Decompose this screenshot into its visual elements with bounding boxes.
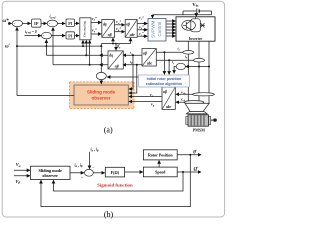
block F omega bbox=[105, 167, 124, 177]
inner feedback bbox=[54, 172, 184, 191]
summing junction theta circle bbox=[96, 72, 106, 79]
svg-text:αβ: αβ bbox=[115, 65, 119, 69]
junction (38.8,35.6) bbox=[38, 35, 40, 37]
motor funnel bbox=[185, 103, 209, 111]
junction (164.4,52.3) bbox=[163, 51, 165, 53]
omega feedback horizontal from smo bbox=[17, 95, 74, 97]
wires svpwm to inverter 6 bbox=[166, 20, 175, 22]
L1 line bbox=[17, 45, 101, 47]
svg-text:(b): (b) bbox=[104, 210, 114, 219]
junction (144.2,36.2) bbox=[143, 35, 145, 37]
wire ic from phase bbox=[186, 66, 209, 68]
junction (144.2,29.8) bbox=[143, 29, 145, 31]
wire Vbeta in bbox=[14, 175, 30, 177]
block IP bbox=[32, 19, 42, 27]
arrowheads on L2 L3 bbox=[100, 54, 102, 56]
L3 id line bbox=[53, 64, 108, 66]
wire Vcb sensor to T4 bbox=[176, 101, 185, 103]
wire vdc to svpwm bbox=[152, 15, 154, 18]
wire T2 to svpwm 1 bbox=[137, 23, 147, 25]
svg-text:observer: observer bbox=[91, 95, 110, 100]
wire ia to abc block bbox=[156, 51, 183, 53]
phase line a bbox=[187, 41, 189, 104]
svg-text:(a): (a) bbox=[104, 126, 113, 135]
theta vertical from circle bbox=[100, 44, 102, 73]
summing junction S2 bbox=[47, 20, 57, 27]
drop ia to init box bbox=[163, 52, 165, 74]
svg-text:αβ: αβ bbox=[108, 33, 112, 37]
junction (116,43.6) bbox=[115, 43, 117, 45]
summing circle b bbox=[85, 169, 94, 176]
svg-text:observer: observer bbox=[42, 173, 58, 178]
junction (17,46.1) bbox=[16, 45, 18, 47]
wire Valpha in bbox=[14, 169, 30, 171]
wire Vab sensor to T4 bbox=[176, 93, 193, 95]
phase line c bbox=[208, 41, 210, 104]
wire init box to sum circle bbox=[107, 76, 138, 78]
svg-text:Vα: Vα bbox=[16, 162, 21, 168]
junction (101.3,46.1) bbox=[100, 45, 102, 47]
svg-text:PI: PI bbox=[68, 33, 72, 38]
svg-text:+: + bbox=[43, 34, 45, 38]
wire Vd* decoupling to dq-ab bbox=[91, 22, 101, 24]
svg-text:+: + bbox=[49, 22, 51, 26]
svg-text:αβ: αβ bbox=[143, 52, 147, 56]
svg-text:ω*: ω* bbox=[3, 19, 10, 24]
block smo-b bbox=[31, 166, 71, 179]
svg-text:estimation algorithm: estimation algorithm bbox=[146, 82, 183, 86]
svg-text:αβ: αβ bbox=[126, 22, 130, 26]
junction (144.2,23.5) bbox=[143, 23, 145, 25]
junction (77,23.4) bbox=[76, 23, 78, 25]
wire circle to F bbox=[93, 172, 104, 174]
block T5 abc-ab currents bbox=[142, 49, 156, 67]
svg-text:Rotor Position: Rotor Position bbox=[148, 153, 173, 158]
ibeta drop to smo bbox=[129, 65, 137, 93]
wire ib to abc block bbox=[156, 59, 193, 61]
junction (209,66.5) bbox=[208, 66, 210, 68]
svg-text:Vβ: Vβ bbox=[15, 179, 20, 185]
block decoupling bbox=[80, 18, 91, 40]
wire omega* input bbox=[8, 22, 12, 24]
svg-text:PMSM: PMSM bbox=[193, 127, 205, 132]
phase line b bbox=[198, 41, 200, 111]
theta stub to T2 bbox=[130, 38, 132, 44]
svg-text:Inverter: Inverter bbox=[189, 37, 203, 41]
svg-text:Sliding mode: Sliding mode bbox=[87, 90, 116, 95]
wire S3 to PI d bbox=[51, 35, 65, 37]
svg-text:F(Ω): F(Ω) bbox=[111, 170, 120, 175]
outer feedback bbox=[41, 155, 190, 207]
svg-text:+: + bbox=[14, 22, 16, 26]
block PI q bbox=[66, 19, 75, 27]
theta stub to T3 bbox=[115, 44, 117, 51]
Valpha wire T4 to smo bbox=[129, 96, 162, 98]
block T1 dq-ab bbox=[102, 20, 115, 38]
block speed bbox=[143, 167, 177, 177]
block PI d bbox=[66, 32, 75, 39]
svg-text:abc: abc bbox=[166, 105, 172, 109]
wire speed to rotor position bbox=[158, 161, 160, 168]
wire smo-b to circle bbox=[70, 172, 84, 174]
drop ic to init box bbox=[174, 67, 176, 74]
junction (46.4,46.1) bbox=[45, 45, 47, 47]
svg-text:Speed: Speed bbox=[155, 170, 166, 175]
block T3 ab-dq currents bbox=[108, 51, 123, 69]
svg-text:Initial rotor position: Initial rotor position bbox=[147, 77, 182, 81]
drop ib to init box bbox=[168, 60, 170, 74]
wire speed out bbox=[177, 171, 201, 173]
initial rotor position estimation box bbox=[139, 75, 190, 87]
dc rail upper with battery gap bbox=[183, 10, 196, 12]
ibeta line T3 right bbox=[123, 64, 142, 66]
motor body bbox=[186, 117, 188, 125]
junction (169.1,60.2) bbox=[168, 59, 170, 61]
theta stub to T1 bbox=[112, 38, 114, 44]
current sensor ia bbox=[183, 51, 194, 55]
Vbeta wire T4 to smo bbox=[129, 101, 162, 103]
junction (113,43.6) bbox=[112, 43, 114, 45]
igbt symbol bbox=[182, 17, 205, 32]
wire rotor position out bbox=[177, 154, 201, 156]
outer frame bbox=[2, 1, 224, 217]
svg-text:PI: PI bbox=[68, 21, 72, 26]
wire id-ref input bbox=[25, 35, 42, 37]
theta horizontal bbox=[101, 43, 130, 45]
svg-text:αβ: αβ bbox=[163, 90, 167, 94]
wire PI d to decoupling bbox=[75, 35, 80, 37]
junction (77,35.6) bbox=[76, 35, 78, 37]
svg-text:abc: abc bbox=[147, 62, 153, 66]
decoupling bottom feeds bbox=[82, 40, 84, 46]
block T4 abc-ab voltages bbox=[162, 87, 175, 109]
wire dc to inverter top bbox=[195, 15, 197, 17]
junction (89.6,64.8) bbox=[89, 64, 91, 66]
wire F to speed bbox=[125, 171, 143, 173]
ialpha drop to smo bbox=[129, 55, 133, 89]
block svpwm bbox=[148, 19, 166, 42]
svg-text:abc: abc bbox=[130, 33, 136, 37]
omega feedback vertical bbox=[16, 27, 18, 95]
svg-text:Sigmoid function: Sigmoid function bbox=[97, 183, 133, 188]
ialpha line T3 right bbox=[123, 54, 142, 56]
wire PI q to decoupling bbox=[75, 22, 80, 24]
S3 feedback vertical bbox=[45, 40, 47, 55]
sliding mode observer dashed outline bbox=[70, 82, 135, 109]
dc rail end verticals bbox=[182, 11, 184, 15]
wire T2 to svpwm 3 bbox=[137, 35, 147, 37]
wire top into circle bbox=[89, 152, 91, 169]
svg-text:Control: Control bbox=[157, 22, 162, 37]
voltage sensor cb bbox=[184, 101, 203, 104]
block T2 ab-abc bbox=[125, 20, 137, 38]
svg-text:id ref = 0: id ref = 0 bbox=[25, 30, 37, 35]
block inverter bbox=[176, 17, 215, 41]
summing junction S3 bbox=[42, 32, 52, 39]
dc rail lower bbox=[153, 14, 212, 16]
wire Va* T1 to T2 bbox=[115, 24, 125, 26]
wire S1 to IP bbox=[22, 22, 31, 24]
current sensor ib bbox=[194, 58, 205, 62]
sliding mode observer block bbox=[74, 85, 128, 105]
S2 feedback vertical bbox=[52, 28, 54, 65]
summing junction S1 bbox=[12, 20, 22, 26]
wire sum circle down to smo bbox=[100, 80, 102, 84]
wire IP to S2 bbox=[41, 22, 47, 24]
junction dots diagram b bbox=[182, 171, 184, 173]
junction dots diagram a bbox=[16, 23, 210, 68]
wire Vb* T1 to T2 bbox=[115, 31, 125, 33]
current sensor ic circle bbox=[176, 63, 185, 69]
junction (199,66.5) bbox=[198, 66, 200, 68]
svg-text:dq: dq bbox=[103, 22, 107, 26]
svg-text:dq: dq bbox=[109, 54, 113, 58]
junction (83,46.1) bbox=[82, 45, 84, 47]
wire S2 to PI q bbox=[57, 22, 65, 24]
wire Vq* decoupling to dq-ab bbox=[91, 33, 101, 35]
block rotor position bbox=[143, 150, 177, 160]
svg-text:SVPWM: SVPWM bbox=[151, 20, 156, 38]
battery plates bbox=[196, 8, 198, 13]
svg-text:Vdc: Vdc bbox=[192, 2, 199, 8]
svg-text:IP: IP bbox=[34, 21, 39, 26]
junction (86.3,55.2) bbox=[85, 54, 87, 56]
svg-text:Decoupling: Decoupling bbox=[82, 21, 86, 37]
wire T2 to svpwm 2 bbox=[137, 29, 147, 31]
junction (133,55.2) bbox=[132, 54, 134, 56]
junction (136.8,64.8) bbox=[136, 64, 138, 66]
L2 iq line bbox=[46, 54, 108, 56]
voltage sensor ab bbox=[193, 93, 215, 96]
